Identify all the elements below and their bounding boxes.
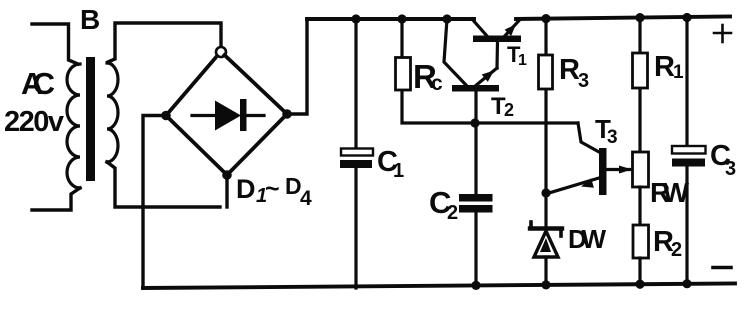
svg-text:~: ~ [265, 175, 280, 203]
svg-text:1: 1 [393, 160, 404, 182]
transistor T2 collector wire [444, 19, 466, 85]
transformer B core [86, 57, 95, 181]
capacitor C1 plates [340, 149, 373, 169]
node dot R1 top [635, 13, 644, 22]
transistor T1 collector wire [472, 19, 487, 36]
svg-text:B: B [80, 4, 100, 35]
wire: bridge right vertex up to positive rail [287, 19, 307, 114]
node: bridge left vertex junction dot [161, 111, 171, 121]
transistor T2 base bar [452, 85, 499, 92]
svg-text:R: R [654, 51, 675, 83]
transformer B primary top lead wire [32, 24, 78, 64]
resistor R3 body [539, 55, 553, 89]
zener diode DW triangle [534, 231, 558, 257]
resistor Rc body [396, 58, 411, 91]
transistor T3 emitter with arrow [549, 178, 599, 193]
svg-text:4: 4 [300, 187, 312, 210]
capacitor C2 plates [459, 194, 493, 213]
transformer B secondary top lead wire to bridge [108, 23, 221, 62]
label Rc [413, 58, 443, 95]
svg-text:2: 2 [504, 100, 514, 120]
node: bridge right vertex junction dot [282, 109, 292, 119]
label C3 [710, 140, 736, 180]
node dot DW bottom [541, 280, 550, 289]
svg-text:D: D [236, 174, 256, 204]
transistor T3 base bar [599, 148, 607, 195]
resistor Rc leads [402, 19, 578, 123]
svg-text:2: 2 [447, 202, 458, 224]
capacitor C2 bottom lead [474, 212, 477, 287]
node dot C2 bottom [471, 281, 480, 290]
svg-text:2: 2 [671, 239, 682, 261]
svg-text:AC: AC [21, 66, 55, 101]
transformer B primary bottom lead wire [32, 188, 80, 210]
svg-text:1: 1 [673, 62, 684, 83]
transistor T3 collector wire from Rc line [578, 123, 599, 152]
zener diode DW cathode bar [530, 222, 562, 236]
wire: top positive rail (unregulated segment) [307, 17, 474, 21]
bridge rectifier node: top vertex open circle [216, 47, 226, 57]
label T1 [507, 42, 527, 69]
transistor T1 emitter with arrow [502, 20, 520, 40]
node dot T2 collector [442, 14, 451, 23]
label R3 [559, 54, 589, 92]
potentiometer RW body [633, 152, 649, 187]
svg-text:1: 1 [518, 52, 527, 69]
wire: bottom negative rail [143, 284, 735, 289]
label R1 [654, 51, 684, 83]
label R2 [653, 226, 682, 261]
resistor R2 body [633, 225, 649, 258]
minus output terminal [713, 266, 731, 270]
node dot R2 bottom [635, 280, 644, 289]
node: bridge bottom vertex junction dot [222, 170, 232, 180]
zener diode DW leads [544, 193, 547, 287]
node dot Rc top [397, 14, 406, 23]
label T3 [595, 114, 618, 148]
plus output terminal [714, 25, 731, 42]
capacitor C3 plates [672, 146, 706, 167]
transformer B primary winding [67, 64, 80, 188]
wire: T2 base down to C2 [474, 90, 477, 194]
label D1~D4 [236, 173, 312, 210]
transistor T1 base bar [473, 36, 521, 43]
label C2 [429, 185, 458, 224]
node dot Rc bottom / T2 base junction [470, 118, 479, 127]
resistor R1 body [633, 53, 648, 88]
label T2 [491, 93, 514, 120]
resistor R2 bottom lead [638, 258, 641, 287]
node dot R3 top [541, 14, 550, 23]
transistor T2 emitter with arrow [474, 68, 497, 87]
svg-text:R: R [559, 54, 580, 86]
transistor T1 base lead from T2 emitter [495, 41, 499, 68]
svg-text:3: 3 [578, 70, 589, 92]
wire: bridge left vertex down to negative rail [143, 116, 166, 289]
resistor R1 leads [638, 18, 641, 151]
bridge rectifier diamond D1-D4 [166, 55, 287, 175]
wire RW to R2 [638, 187, 641, 225]
svg-text:3: 3 [607, 127, 618, 148]
label C1 [377, 146, 404, 182]
diode inside bridge [192, 99, 264, 131]
svg-text:220v: 220v [4, 106, 64, 138]
node dot C3 bottom [682, 279, 691, 288]
node dot C3 top [682, 13, 691, 22]
node dot C1 top [351, 14, 360, 23]
transformer B secondary winding [107, 63, 118, 162]
svg-text:RW: RW [650, 177, 690, 208]
capacitor C3 leads [685, 18, 688, 287]
potentiometer RW wiper arrow from T3 base [606, 166, 632, 174]
svg-text:3: 3 [725, 158, 736, 180]
capacitor C1 leads [354, 19, 357, 288]
node dot T3 emitter / zener junction [541, 188, 550, 197]
resistor R3 leads [544, 19, 547, 193]
wire: bridge bottom vertex to secondary bottom [225, 175, 228, 207]
svg-text:c: c [431, 72, 443, 95]
zener diode DW inner mark [540, 238, 551, 252]
transformer B secondary bottom lead wire [107, 162, 220, 207]
wire: top positive rail (regulated output segment) [516, 17, 730, 20]
svg-text:DW: DW [568, 224, 606, 254]
